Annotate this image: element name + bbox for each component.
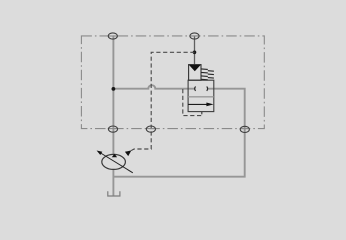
pilot line (dashed) from main line to valve spring end: [183, 89, 202, 116]
pump PV1 outlet flow triangle: [112, 154, 117, 157]
valve V1 main body (two-position box): [188, 80, 214, 111]
valve V1 blocked path end cap right: [206, 87, 209, 91]
valve V1 position divider: [188, 96, 214, 98]
wire: main flow line from junction to valve (with crossover hop): [113, 85, 195, 89]
variable displacement arrow through pump: [99, 152, 133, 173]
pump PV1 body (variable displacement pump ellipse): [102, 154, 126, 169]
wire: flow line from valve right side down through port P5 and back to pump line: [113, 89, 244, 177]
port P3 (bottom boundary port on pump line): [108, 126, 117, 132]
valve V1 poppet (filled triangle): [189, 65, 201, 71]
enclosure boundary (dash-dot subsystem frame): [81, 36, 264, 129]
valve V1 drain stub to pilot line: [201, 112, 203, 115]
valve V1 open-position flow arrow: [188, 103, 207, 105]
port P2 (top-right boundary port): [190, 33, 199, 39]
valve V1 blocked path end cap left: [194, 87, 197, 91]
tank T1 symbol: [108, 191, 120, 196]
valve V1 pilot poppet box: [189, 65, 201, 81]
port P1 (top-left boundary port): [108, 33, 117, 39]
node B (junction dot on pilot supply): [193, 51, 197, 55]
port P4 (bottom boundary port on pilot line): [146, 126, 155, 132]
pump PV1 control port triangle (points to pilot line): [125, 150, 131, 156]
spring (zigzag) of valve V1: [201, 69, 214, 80]
port P5 (bottom boundary port on return line): [240, 126, 249, 132]
wire: stub from control triangle to dashed pilot: [131, 149, 134, 151]
wire: pilot supply from port P2 down to valve top: [194, 36, 196, 64]
node A (junction dot on main line): [112, 87, 116, 91]
wire: main vertical line from port P1 down to pump: [112, 36, 114, 154]
wire: pump outlet down to tank: [112, 169, 114, 196]
pilot line (dashed) from node B to pump control: [134, 52, 195, 149]
wire: boundary line visible through ports: [108, 36, 251, 129]
